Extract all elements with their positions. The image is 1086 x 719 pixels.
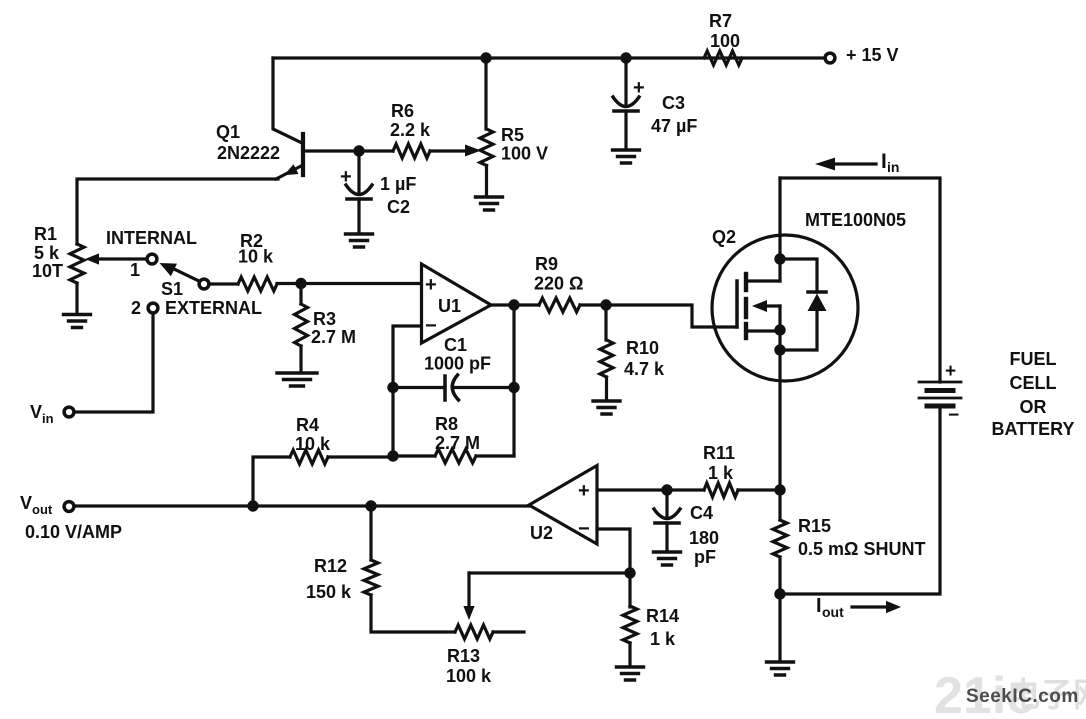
label S1 pos 1: [130, 260, 140, 280]
wire Q1 collector: [273, 58, 302, 143]
label INTERNAL: [106, 228, 197, 248]
wire R3 top: [299, 283, 302, 304]
node C4 junction: [661, 484, 672, 495]
watermark SeekIC.com: [966, 686, 1079, 707]
svg-text:4.7 k: 4.7 k: [624, 359, 665, 379]
svg-text:1 k: 1 k: [708, 463, 734, 483]
terminal Vin: [64, 407, 74, 417]
node U1 output junction: [508, 299, 519, 310]
svg-text:+: +: [425, 274, 437, 296]
node R8 left junction: [387, 450, 398, 461]
wire R9 to gate: [580, 305, 737, 327]
label Vout: [20, 493, 53, 517]
svg-text:pF: pF: [694, 547, 716, 567]
wire base to R6: [359, 149, 393, 152]
svg-text:+: +: [633, 77, 645, 99]
resistor R7: [704, 51, 742, 65]
label S1 pos 2: [131, 298, 141, 318]
wire R15 bottom: [778, 557, 781, 594]
resistor R15: [773, 520, 787, 557]
wire R6 to R5 arrow: [430, 145, 481, 157]
wire R12 top: [369, 506, 372, 560]
svg-text:100 V: 100 V: [501, 144, 548, 164]
battery fuel cell: [919, 382, 961, 406]
node R14 junction: [624, 567, 635, 578]
wire R2 to U1: [277, 282, 421, 285]
wire R12 bottom: [371, 595, 455, 632]
svg-text:−: −: [578, 518, 590, 540]
resistor R4: [290, 450, 328, 464]
ground C2: [346, 234, 373, 247]
transistor Q1 base bar: [301, 134, 305, 175]
wire C1 left: [393, 386, 445, 389]
label R10: [624, 338, 665, 379]
label S1: [161, 279, 183, 299]
wire U1 output: [491, 303, 539, 306]
gate bar Q2: [735, 281, 739, 327]
label Vin: [30, 402, 54, 426]
wire R10 top: [604, 305, 607, 340]
svg-text:100 k: 100 k: [446, 666, 492, 686]
label battery plus: [945, 361, 956, 382]
label R14: [646, 606, 679, 649]
wire top rail: [273, 56, 825, 59]
svg-text:out: out: [822, 604, 844, 620]
node R15 top junction: [774, 484, 785, 495]
wire U2 minus input: [597, 529, 630, 573]
transistor Q2 circle: [712, 235, 858, 381]
label U2 plus: [578, 480, 590, 502]
label C3 plus: [633, 77, 645, 99]
svg-text:CELL: CELL: [1010, 373, 1057, 393]
svg-text:+: +: [945, 361, 956, 382]
svg-text:S1: S1: [161, 279, 183, 299]
svg-text:R12: R12: [314, 556, 347, 576]
label FUEL CELL OR BATTERY: [992, 349, 1075, 439]
node Q2 diode bottom junction: [774, 344, 785, 355]
label +15 V: [846, 45, 899, 65]
svg-text:INTERNAL: INTERNAL: [106, 228, 197, 248]
capacitor C3: [613, 58, 639, 149]
svg-text:0.5 mΩ SHUNT: 0.5 mΩ SHUNT: [798, 539, 925, 559]
terminal +15V: [825, 53, 835, 63]
node C1 right junction: [508, 382, 519, 393]
resistor R1 potentiometer: [70, 244, 84, 283]
node Q2 drain junction: [774, 253, 785, 264]
wire Q2 source lead: [746, 329, 780, 332]
label U1 minus: [425, 315, 437, 337]
ground R5: [476, 197, 503, 210]
label battery minus: [948, 405, 959, 426]
svg-text:EXTERNAL: EXTERNAL: [165, 298, 262, 318]
svg-text:SeekIC.com: SeekIC.com: [966, 686, 1079, 707]
svg-text:V: V: [30, 402, 42, 422]
wire R1 bottom: [75, 283, 78, 314]
wire feedback to R13: [469, 571, 630, 574]
label R15: [798, 516, 925, 559]
wire R11 right: [738, 488, 780, 491]
watermark 21ic: [934, 667, 1086, 719]
resistor R5 potentiometer: [480, 129, 493, 166]
svg-text:R11: R11: [703, 443, 735, 463]
svg-text:U1: U1: [438, 296, 461, 316]
node R5 top junction: [480, 52, 491, 63]
wire Q2 drain vertical: [778, 178, 781, 281]
label U1: [438, 296, 461, 316]
svg-text:0.10 V/AMP: 0.10 V/AMP: [25, 522, 122, 542]
svg-text:MTE100N05: MTE100N05: [805, 210, 906, 230]
svg-text:2.7 M: 2.7 M: [311, 327, 356, 347]
resistor R6: [393, 144, 430, 158]
label U1 plus: [425, 274, 437, 296]
wiper R1: [85, 253, 147, 264]
label R4: [295, 415, 331, 454]
arrow Iout: [852, 601, 901, 613]
svg-text:10T: 10T: [32, 261, 63, 281]
svg-text:V: V: [20, 493, 32, 513]
ground C4: [654, 552, 681, 565]
svg-text:2N2222: 2N2222: [217, 143, 280, 163]
resistor R10: [600, 340, 613, 377]
svg-text:1 µF: 1 µF: [380, 174, 416, 194]
label R3: [311, 309, 356, 347]
wire U1 out vertical: [512, 305, 515, 456]
svg-text:in: in: [887, 159, 899, 175]
svg-text:10 k: 10 k: [295, 434, 331, 454]
svg-text:R3: R3: [313, 309, 336, 329]
label R13: [446, 646, 492, 686]
svg-text:R14: R14: [646, 606, 679, 626]
label R2: [238, 231, 274, 267]
wire R14 top: [628, 573, 631, 607]
svg-text:5 k: 5 k: [34, 243, 60, 263]
wire U2 plus input: [597, 488, 704, 491]
op-amp U2: [529, 466, 597, 545]
op-amp U1: [422, 264, 492, 343]
node Q2 source junction: [774, 324, 785, 335]
svg-text:1000 pF: 1000 pF: [424, 354, 491, 374]
switch S1 pos2 terminal: [148, 303, 158, 313]
diode Q2 body: [780, 259, 827, 350]
label Q1: [216, 122, 280, 163]
wire R15 top: [778, 490, 781, 520]
wire Q2 source vertical: [778, 306, 781, 490]
label R7 value: [709, 11, 740, 51]
label Iout: [816, 595, 844, 620]
svg-text:R13: R13: [447, 646, 480, 666]
svg-text:R6: R6: [391, 101, 414, 121]
label C1: [424, 335, 491, 374]
label MTE100N05: [805, 210, 906, 230]
ground R10: [593, 401, 620, 414]
wire R5 top: [484, 58, 487, 129]
svg-text:+: +: [340, 166, 352, 188]
ground C3: [613, 150, 640, 163]
label R11: [703, 443, 735, 483]
resistor R8: [435, 449, 476, 463]
svg-text:R5: R5: [501, 125, 524, 145]
svg-text:I: I: [881, 150, 887, 173]
wire Q2 source arrow: [752, 300, 780, 312]
svg-text:47 µF: 47 µF: [651, 116, 697, 136]
label C3: [651, 93, 697, 136]
wire drain to battery: [780, 178, 940, 382]
label C2 plus: [340, 166, 352, 188]
wire R8 left: [393, 454, 435, 457]
svg-text:1: 1: [130, 260, 140, 280]
svg-text:2.2 k: 2.2 k: [390, 120, 431, 140]
svg-text:+ 15 V: + 15 V: [846, 45, 899, 65]
ground R3: [277, 373, 317, 386]
svg-text:Q1: Q1: [216, 122, 240, 142]
resistor R2: [238, 277, 277, 291]
wire R14 bottom: [628, 643, 631, 666]
node R2 R3 junction: [295, 278, 306, 289]
wire battery to Iout corner: [786, 406, 940, 594]
svg-text:R9: R9: [535, 254, 558, 274]
svg-text:C2: C2: [387, 197, 410, 217]
node C2 junction: [353, 145, 364, 156]
svg-text:out: out: [32, 502, 53, 517]
svg-text:I: I: [816, 595, 822, 617]
wire R5 bottom: [485, 166, 488, 197]
svg-text:C1: C1: [444, 335, 467, 355]
wire R4 right: [328, 455, 393, 458]
svg-text:BATTERY: BATTERY: [992, 419, 1075, 439]
wire Q2 drain lead: [746, 279, 780, 282]
switch S1 arm: [160, 263, 201, 282]
resistor R9: [539, 298, 580, 312]
wire S1 pole to R2: [209, 282, 238, 285]
node C1 left junction: [387, 382, 398, 393]
label Vout scale: [25, 522, 122, 542]
svg-text:R4: R4: [296, 415, 319, 435]
svg-text:R7: R7: [709, 11, 732, 31]
label R12: [306, 556, 352, 602]
label C2: [380, 174, 416, 217]
wire Q1 emitter: [276, 164, 303, 179]
svg-text:2: 2: [131, 298, 141, 318]
svg-text:R1: R1: [34, 224, 57, 244]
svg-text:10 k: 10 k: [238, 247, 274, 267]
label R5: [501, 125, 548, 164]
resistor R11: [704, 483, 738, 497]
ground R14: [617, 667, 644, 680]
node R12 junction: [365, 500, 376, 511]
svg-text:1 k: 1 k: [650, 629, 676, 649]
svg-text:−: −: [425, 315, 437, 337]
wire R3 bottom: [299, 346, 302, 372]
ground R1: [64, 315, 91, 328]
wire emitter to R1: [77, 179, 278, 244]
wire Vout: [75, 504, 529, 507]
resistor R12: [364, 560, 378, 595]
switch S1 pole terminal: [199, 279, 209, 289]
svg-text:R8: R8: [435, 414, 458, 434]
svg-text:R15: R15: [798, 516, 831, 536]
switch S1 pos1 terminal: [147, 254, 157, 264]
svg-text:180: 180: [689, 528, 719, 548]
label R1: [32, 224, 63, 281]
svg-text:220 Ω: 220 Ω: [534, 274, 583, 294]
svg-text:Q2: Q2: [712, 227, 736, 247]
resistor R13 potentiometer: [455, 625, 493, 639]
arrow Iin: [815, 158, 876, 171]
channel Q2 segments: [744, 274, 748, 338]
svg-text:C4: C4: [690, 503, 713, 523]
wire R10 bottom: [605, 377, 608, 400]
capacitor C2: [346, 151, 372, 233]
svg-text:U2: U2: [530, 523, 553, 543]
resistor R3: [295, 304, 308, 346]
terminal Vout: [64, 502, 74, 512]
svg-text:150 k: 150 k: [306, 582, 352, 602]
label U2 minus: [578, 518, 590, 540]
svg-text:in: in: [42, 411, 54, 426]
label R9: [534, 254, 583, 294]
resistor R14: [623, 606, 637, 643]
wire R4 corner: [253, 457, 290, 506]
wiper R13: [463, 573, 474, 620]
wire C1 right: [454, 386, 514, 389]
wire U1 minus input: [393, 326, 421, 456]
wire Q1 base lead: [303, 149, 359, 152]
svg-text:2.7 M: 2.7 M: [435, 433, 480, 453]
svg-text:OR: OR: [1020, 397, 1047, 417]
node R15 bottom junction: [774, 588, 785, 599]
wire R8 right: [476, 454, 514, 457]
capacitor C4: [654, 490, 680, 551]
ground R15: [767, 662, 794, 675]
label Q2: [712, 227, 736, 247]
label Iin: [881, 150, 899, 175]
label U2: [530, 523, 553, 543]
wire R13 right: [493, 630, 524, 633]
wire R15 to ground: [778, 594, 781, 661]
node R4 Vout junction: [247, 500, 258, 511]
label C4: [689, 503, 719, 567]
svg-text:C3: C3: [662, 93, 685, 113]
svg-text:+: +: [578, 480, 590, 502]
label EXTERNAL: [165, 298, 262, 318]
label R6: [390, 101, 431, 140]
node C3 top junction: [620, 52, 631, 63]
svg-text:100: 100: [710, 31, 740, 51]
svg-text:FUEL: FUEL: [1010, 349, 1057, 369]
capacitor C1: [445, 375, 459, 400]
svg-text:R10: R10: [626, 338, 659, 358]
label R8: [435, 414, 480, 453]
svg-text:−: −: [948, 405, 959, 426]
wire S1 pos2 to Vin: [75, 313, 153, 412]
node R10 junction: [600, 299, 611, 310]
